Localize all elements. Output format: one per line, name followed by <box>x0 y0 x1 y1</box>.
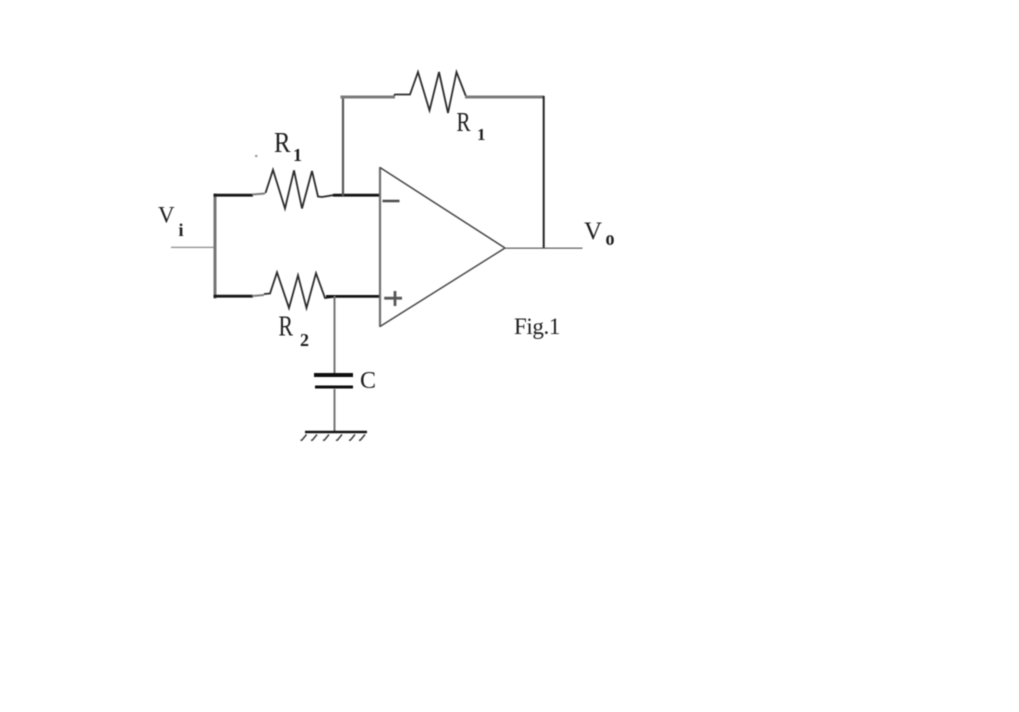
label Vi <box>158 203 184 241</box>
svg-text:R: R <box>279 312 294 343</box>
svg-text:1: 1 <box>477 125 486 144</box>
capacitor C bottom plate <box>315 386 353 389</box>
resistor R2 zigzag <box>264 272 334 308</box>
wire upper branch right to inverting input <box>333 194 381 197</box>
svg-text:C: C <box>360 368 376 394</box>
wire feedback top left <box>341 96 396 99</box>
resistor R1 (input) zigzag <box>266 170 334 209</box>
resistor R1 (feedback) zigzag <box>394 72 466 113</box>
svg-text:R: R <box>274 127 291 159</box>
op-amp U1 top edge <box>380 168 505 249</box>
svg-text:R: R <box>457 107 471 137</box>
wire feedback right vertical <box>543 96 545 248</box>
capacitor C bottom wire <box>334 389 336 431</box>
svg-text:1: 1 <box>293 145 302 165</box>
stray scan speck <box>255 155 258 157</box>
op-amp U1 left edge <box>379 167 381 327</box>
label R1 (feedback) <box>457 107 486 144</box>
wire upper branch left <box>214 194 254 197</box>
wire feedback top right <box>465 96 544 99</box>
label R1 (input) <box>274 127 302 165</box>
plus sign (non-inverting input) <box>384 291 402 306</box>
wire feedback tap vertical (left) <box>342 96 344 196</box>
svg-text:i: i <box>179 220 184 240</box>
wire lower branch lead <box>252 295 264 296</box>
label R2 <box>279 312 310 351</box>
wire lower branch left <box>214 295 254 298</box>
wire lower branch right to non-inverting input <box>326 295 381 298</box>
svg-text:o: o <box>606 226 615 250</box>
node input junction vertical wire <box>214 194 217 299</box>
svg-text:V: V <box>584 218 602 245</box>
wire output <box>504 247 583 249</box>
ground bar <box>305 431 367 434</box>
svg-text:V: V <box>158 203 175 228</box>
wire upper branch lead <box>252 194 265 195</box>
ground hatch marks <box>301 435 366 441</box>
label Vo <box>584 218 615 250</box>
op-amp U1 bottom edge <box>380 248 505 327</box>
capacitor C top wire <box>334 296 336 373</box>
wire Vi input lead <box>171 246 215 248</box>
svg-text:Fig.1: Fig.1 <box>514 314 560 339</box>
capacitor C top plate <box>314 373 353 377</box>
minus sign (inverting input) <box>383 200 400 203</box>
svg-text:2: 2 <box>300 330 309 350</box>
